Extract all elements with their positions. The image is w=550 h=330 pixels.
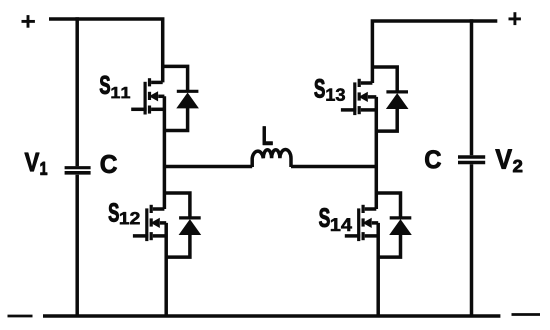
label S12 [109,203,140,224]
label L [263,127,273,145]
label S14 [319,208,352,231]
body diode of S14 [376,193,412,257]
wire: top-right rail from S13 drain to + terminal [372,21,497,83]
wire: bottom shared rail [43,314,500,318]
plus terminal (right, V2 positive) [509,12,521,25]
minus terminal (left, V1 negative) [8,315,33,318]
capacitor C (left, across V1) [65,168,91,173]
body diode of S12 [164,193,201,257]
transistor S11 (N-channel MOSFET symbol) [131,78,164,209]
transistor S12 (N-channel MOSFET symbol) [133,205,166,316]
body diode of S13 [372,67,408,131]
label C (right) [425,150,441,168]
wire: left capacitor rail upper [75,17,79,166]
transistor S13 (N-channel MOSFET symbol) [341,79,376,209]
label V2 [496,149,523,172]
transistor S14 (N-channel MOSFET symbol) [345,205,378,316]
capacitor C (right, across V2) [458,157,485,163]
label C (left) [101,155,117,173]
label S13 [314,79,345,101]
minus terminal (right, V2 negative) [512,313,541,316]
label S11 [100,76,130,98]
wire: left leg midpoint node to inductor [164,165,252,169]
body diode of S11 [163,66,199,130]
plus terminal (left, V1 positive) [22,15,35,28]
wire: inductor to right leg midpoint node [291,165,378,169]
wire: top-left rail from + terminal to S11 drain [49,19,163,82]
label V1 [25,153,47,175]
wire: right capacitor rail upper [470,19,474,155]
inductor L [252,150,291,168]
wire: left capacitor rail lower [75,175,79,316]
wire: right capacitor rail lower [470,164,474,316]
